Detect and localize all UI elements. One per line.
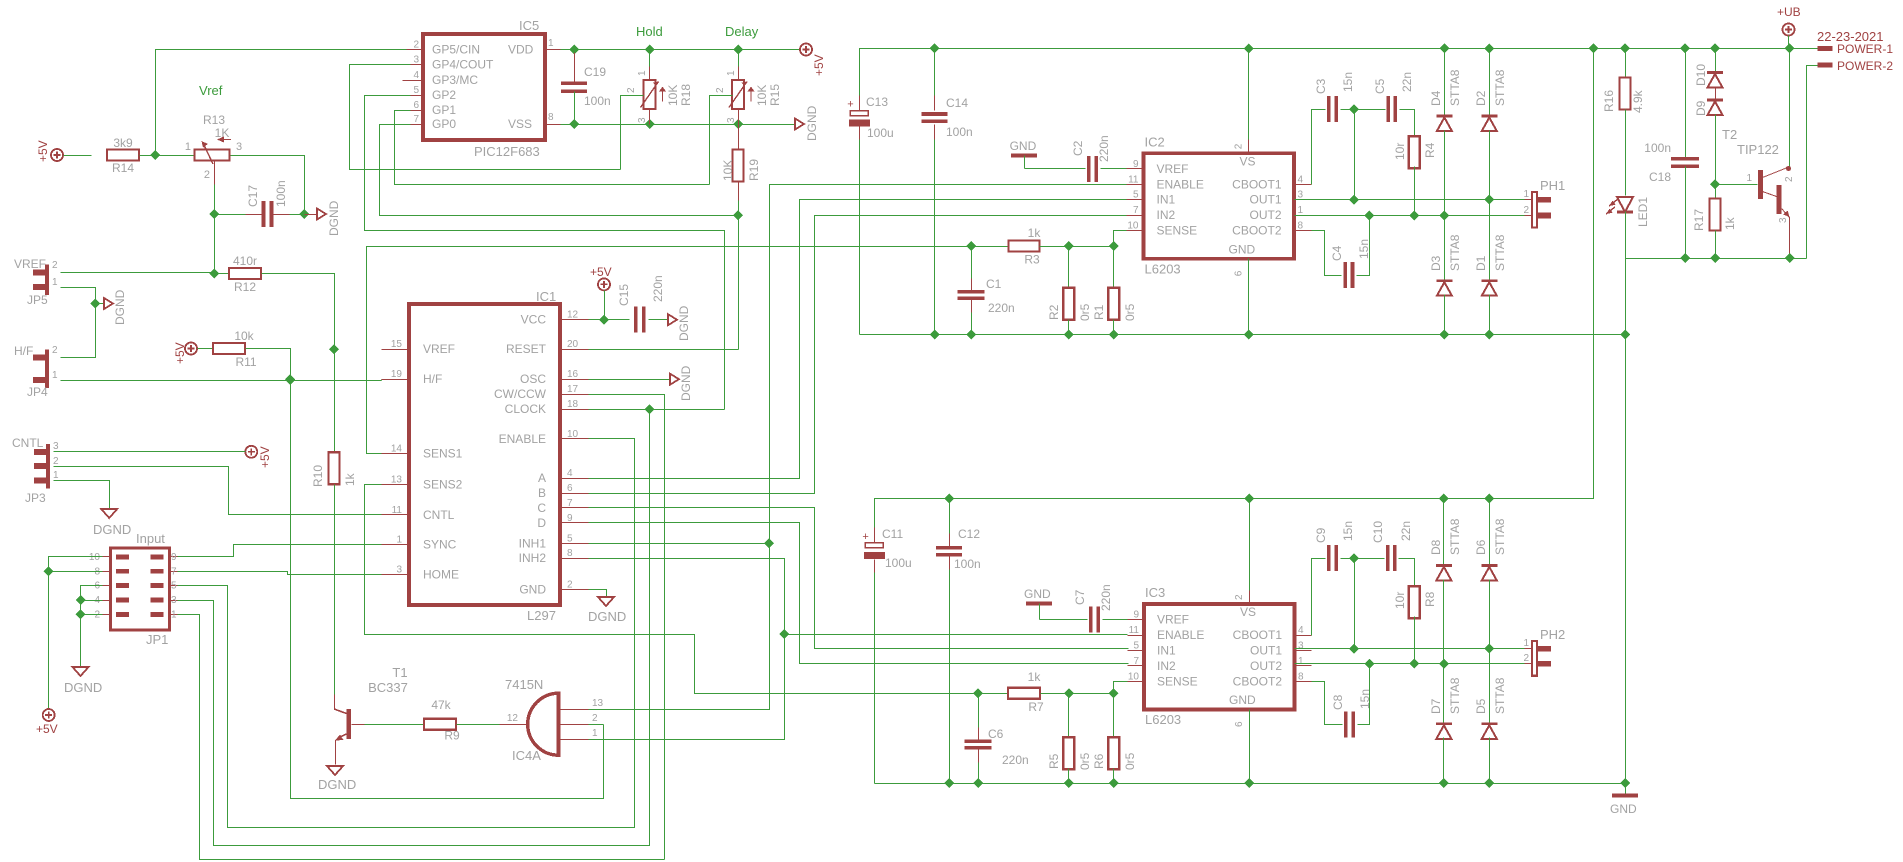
svg-text:6: 6 bbox=[567, 483, 573, 494]
svg-text:100n: 100n bbox=[1644, 141, 1671, 155]
wire +UB2 bus bbox=[875, 49, 1594, 543]
power +5V (JP3) bbox=[245, 446, 272, 468]
svg-text:220n: 220n bbox=[1099, 584, 1113, 611]
svg-text:R16: R16 bbox=[1602, 90, 1616, 112]
svg-text:1: 1 bbox=[396, 534, 402, 545]
svg-text:R14: R14 bbox=[112, 161, 134, 175]
svg-text:7: 7 bbox=[171, 566, 177, 577]
svg-text:1k: 1k bbox=[1028, 226, 1042, 240]
node junction C6 bottom bbox=[973, 778, 983, 788]
IC U-IC2 L6203 bbox=[1127, 134, 1312, 276]
svg-text:19: 19 bbox=[391, 369, 403, 380]
resistor R5 0r5 bbox=[1047, 694, 1092, 784]
svg-text:0r5: 0r5 bbox=[1078, 752, 1092, 770]
wire JP5 pin1 to DGND bbox=[61, 288, 96, 304]
wire INH1 to enable riser bbox=[589, 543, 770, 545]
resistor R10 1k bbox=[311, 350, 357, 695]
wire CBOOT2 to C4 bbox=[1312, 231, 1342, 276]
node junction R16 top bbox=[1620, 43, 1630, 53]
wire R13 wiper pin2 down bbox=[214, 162, 216, 215]
wire CBOOT1 to C3 bbox=[1312, 110, 1326, 185]
power +5V supply (left) bbox=[36, 140, 63, 162]
svg-text:JP1: JP1 bbox=[146, 632, 168, 647]
svg-text:DGND: DGND bbox=[113, 289, 127, 325]
capacitor C10 22n bbox=[1371, 521, 1413, 571]
capacitor C13 100u bbox=[847, 95, 893, 335]
svg-text:VDD: VDD bbox=[508, 43, 534, 57]
svg-text:JP3: JP3 bbox=[25, 491, 46, 505]
power +5V (IC5) bbox=[800, 44, 826, 77]
svg-text:47k: 47k bbox=[431, 698, 451, 712]
ground DGND (C17) bbox=[305, 200, 342, 236]
svg-text:R6: R6 bbox=[1092, 753, 1106, 769]
svg-text:+5V: +5V bbox=[36, 722, 58, 736]
wire C5 to R4 bbox=[1400, 110, 1415, 138]
svg-text:ENABLE: ENABLE bbox=[1157, 177, 1204, 191]
node junction D5 bottom bbox=[1484, 778, 1494, 788]
svg-text:13: 13 bbox=[391, 475, 403, 486]
node junction JP1 pin8 bbox=[44, 566, 54, 576]
svg-text:C5: C5 bbox=[1373, 78, 1387, 94]
svg-text:DGND: DGND bbox=[677, 305, 691, 341]
svg-text:GP0: GP0 bbox=[432, 117, 456, 131]
node junction C18 top bbox=[1680, 43, 1690, 53]
svg-text:C2: C2 bbox=[1071, 140, 1085, 156]
wire A to IC2 IN1 bbox=[589, 200, 1127, 479]
node junction JP5/DGND/JP4 bbox=[90, 299, 100, 309]
wire B to IC2 IN2 bbox=[589, 216, 1127, 494]
wire D to IC3 IN2 bbox=[589, 523, 1129, 664]
node junction T2 collector top bbox=[1785, 43, 1795, 53]
svg-text:8: 8 bbox=[1298, 221, 1304, 232]
svg-text:9: 9 bbox=[171, 552, 177, 563]
svg-text:7415N: 7415N bbox=[505, 677, 543, 692]
svg-text:8: 8 bbox=[567, 548, 573, 559]
svg-text:SENS2: SENS2 bbox=[423, 478, 463, 492]
node junction C12 bottom bbox=[944, 778, 954, 788]
svg-text:D2: D2 bbox=[1474, 90, 1488, 106]
node junction D6 top bbox=[1484, 494, 1494, 504]
svg-text:10r: 10r bbox=[1393, 143, 1407, 160]
wire C4 to OUT2 bbox=[1357, 216, 1370, 276]
svg-text:C: C bbox=[537, 501, 546, 515]
ground DGND (T1) bbox=[318, 766, 356, 792]
node junction D4/OUT2 bbox=[1439, 211, 1449, 221]
svg-text:R15: R15 bbox=[768, 84, 782, 106]
svg-text:RESET: RESET bbox=[506, 342, 547, 356]
svg-text:C10: C10 bbox=[1371, 521, 1385, 543]
svg-text:1K: 1K bbox=[215, 126, 230, 140]
svg-text:2: 2 bbox=[1784, 176, 1795, 182]
wire GP0 to R19 node bbox=[380, 125, 739, 216]
wire IC1 GND pin bbox=[589, 590, 607, 598]
transistor T1 BC337 bbox=[334, 665, 408, 765]
label GND (C7) bbox=[1024, 587, 1051, 601]
wire GND bus 2 bbox=[875, 783, 1626, 785]
svg-text:SENSE: SENSE bbox=[1157, 674, 1198, 688]
wire C8 to OUT2 bbox=[1358, 664, 1370, 725]
svg-text:CBOOT1: CBOOT1 bbox=[1233, 628, 1283, 642]
svg-text:15n: 15n bbox=[1341, 521, 1355, 541]
svg-text:STTA8: STTA8 bbox=[1448, 69, 1462, 106]
svg-text:Vref: Vref bbox=[199, 83, 223, 98]
wire JP1 pin10/8 to +5V bbox=[49, 557, 103, 710]
svg-text:2: 2 bbox=[626, 87, 637, 93]
capacitor C18 100n bbox=[1644, 49, 1699, 259]
diode D7 STTA8 bbox=[1429, 664, 1462, 784]
capacitor C4 15n bbox=[1330, 239, 1371, 288]
label Delay net bbox=[725, 24, 759, 39]
node junction rail/T2 bbox=[1785, 253, 1795, 263]
wire +UB top bus bbox=[860, 49, 1818, 111]
transistor T2 TIP122 bbox=[1722, 127, 1795, 259]
svg-text:CNTL: CNTL bbox=[423, 508, 455, 522]
capacitor C14 100n bbox=[922, 49, 973, 335]
svg-text:9: 9 bbox=[1133, 159, 1139, 170]
resistor R14 3k9 bbox=[107, 136, 139, 175]
resistor R6 0r5 bbox=[1092, 694, 1137, 784]
node junction R2 bottom bbox=[1064, 330, 1074, 340]
capacitor C5 22n bbox=[1373, 72, 1414, 122]
capacitor C3 15n bbox=[1314, 72, 1355, 122]
svg-text:VS: VS bbox=[1240, 154, 1256, 168]
svg-text:IN1: IN1 bbox=[1157, 193, 1176, 207]
resistor R4 10r bbox=[1393, 136, 1437, 215]
wire IC3 enable row bbox=[785, 634, 1128, 636]
node junction D7 bottom bbox=[1439, 778, 1449, 788]
potentiometer R13 1K bbox=[185, 113, 242, 181]
wire VDD rail bbox=[561, 49, 807, 51]
svg-text:D5: D5 bbox=[1474, 698, 1488, 714]
wire LED rail to GND riser bbox=[1625, 259, 1627, 784]
svg-text:SENS1: SENS1 bbox=[423, 447, 463, 461]
wire SENS1 to R3 line bbox=[367, 247, 1010, 454]
capacitor C17 100n bbox=[215, 180, 305, 227]
svg-text:CBOOT1: CBOOT1 bbox=[1232, 177, 1282, 191]
wire +5V to R14 bbox=[64, 155, 92, 157]
svg-text:H/F: H/F bbox=[423, 372, 442, 386]
svg-text:IC3: IC3 bbox=[1145, 585, 1165, 600]
svg-text:1: 1 bbox=[637, 70, 648, 76]
svg-text:POWER-2: POWER-2 bbox=[1837, 59, 1893, 73]
svg-text:3: 3 bbox=[396, 564, 402, 575]
svg-text:C7: C7 bbox=[1073, 589, 1087, 605]
wire C10 to R8 bbox=[1399, 559, 1415, 588]
svg-text:6: 6 bbox=[1234, 270, 1245, 276]
svg-text:2: 2 bbox=[53, 456, 59, 467]
svg-text:+5V: +5V bbox=[258, 446, 272, 468]
ground GND bar (C2) bbox=[1011, 154, 1037, 158]
svg-text:10K: 10K bbox=[755, 85, 769, 106]
wire GP2 to CLOCK riser bbox=[365, 96, 725, 410]
ground DGND (JP3) bbox=[93, 509, 131, 537]
ground DGND (JP5) bbox=[96, 289, 128, 325]
wire T1 collector bbox=[334, 695, 336, 710]
svg-text:1: 1 bbox=[185, 141, 191, 153]
svg-text:8: 8 bbox=[1298, 671, 1304, 682]
node junction R2 top bbox=[1064, 241, 1074, 251]
svg-text:17: 17 bbox=[567, 384, 579, 395]
wire R13 pin3 to C17 node bbox=[231, 156, 305, 215]
svg-text:C1: C1 bbox=[986, 277, 1002, 291]
node junction D2/OUT1 bbox=[1484, 195, 1494, 205]
svg-text:C11: C11 bbox=[882, 527, 903, 541]
svg-text:C8: C8 bbox=[1331, 694, 1345, 710]
svg-text:INH1: INH1 bbox=[519, 536, 547, 550]
svg-text:+5V: +5V bbox=[173, 342, 187, 364]
svg-text:PIC12F683: PIC12F683 bbox=[474, 144, 540, 159]
svg-text:STTA8: STTA8 bbox=[1448, 234, 1462, 271]
svg-text:10K: 10K bbox=[721, 160, 735, 181]
svg-text:12: 12 bbox=[567, 310, 579, 321]
svg-text:1k: 1k bbox=[343, 472, 357, 486]
svg-text:R1: R1 bbox=[1092, 304, 1106, 320]
wire R3 to sense junctions bbox=[1040, 246, 1114, 248]
svg-text:+5V: +5V bbox=[812, 54, 826, 76]
label POWER-1 bbox=[1818, 42, 1894, 56]
svg-text:VCC: VCC bbox=[521, 313, 547, 327]
svg-text:4: 4 bbox=[1298, 174, 1304, 185]
svg-text:GP5/CIN: GP5/CIN bbox=[432, 43, 480, 57]
svg-text:STTA8: STTA8 bbox=[1493, 234, 1507, 271]
svg-text:2: 2 bbox=[52, 345, 58, 356]
node junction R6 top bbox=[1109, 688, 1119, 698]
svg-text:R13: R13 bbox=[203, 113, 225, 127]
svg-text:1: 1 bbox=[592, 728, 598, 739]
wire JP3 pin2 to CNTL bbox=[54, 467, 382, 515]
svg-text:11: 11 bbox=[392, 505, 403, 516]
wire IC2 GND pin bbox=[1248, 259, 1250, 335]
diode D9 bbox=[1694, 100, 1723, 185]
svg-text:R10: R10 bbox=[311, 465, 325, 487]
svg-text:STTA8: STTA8 bbox=[1448, 518, 1462, 555]
node junction D10 top bbox=[1710, 43, 1720, 53]
svg-text:12: 12 bbox=[507, 713, 519, 724]
svg-text:1: 1 bbox=[53, 470, 59, 481]
capacitor C11 100u bbox=[862, 527, 911, 784]
wire JP3 pin3 to +5V bbox=[54, 451, 246, 453]
svg-text:Input: Input bbox=[136, 531, 165, 546]
diode D1 STTA8 bbox=[1474, 200, 1507, 335]
svg-text:GND: GND bbox=[519, 582, 546, 596]
svg-text:R5: R5 bbox=[1047, 753, 1061, 769]
svg-text:C12: C12 bbox=[958, 527, 980, 541]
wire JP3 pin1 to DGND bbox=[54, 481, 110, 510]
LED LED1 bbox=[1606, 197, 1650, 227]
node junction VSS/C19 bbox=[569, 119, 579, 129]
resistor R17 1k bbox=[1692, 185, 1737, 259]
svg-text:GND: GND bbox=[1610, 802, 1637, 816]
svg-text:R12: R12 bbox=[234, 280, 256, 294]
svg-text:C6: C6 bbox=[988, 727, 1004, 741]
svg-text:3k9: 3k9 bbox=[113, 136, 133, 150]
svg-text:L6203: L6203 bbox=[1145, 261, 1181, 276]
svg-text:3: 3 bbox=[1778, 217, 1789, 223]
svg-text:C9: C9 bbox=[1314, 527, 1328, 543]
svg-text:H/F: H/F bbox=[14, 344, 33, 358]
svg-text:STTA8: STTA8 bbox=[1493, 677, 1507, 714]
node junction C12 top bbox=[944, 494, 954, 504]
node junction D3 bottom bbox=[1439, 330, 1449, 340]
svg-text:LED1: LED1 bbox=[1636, 197, 1650, 227]
capacitor C7 220n bbox=[1040, 584, 1128, 632]
svg-text:1: 1 bbox=[52, 370, 58, 381]
svg-text:R18: R18 bbox=[679, 84, 693, 106]
resistor R19 10K bbox=[721, 125, 761, 216]
svg-text:Hold: Hold bbox=[636, 24, 663, 39]
svg-text:R4: R4 bbox=[1423, 142, 1437, 158]
node junction R4/OUT2 bbox=[1409, 211, 1419, 221]
svg-text:220n: 220n bbox=[988, 301, 1015, 315]
wire C3 to C5 bbox=[1341, 109, 1386, 111]
connector JP3 bbox=[25, 441, 59, 505]
wire base node to T2 bbox=[1716, 184, 1758, 186]
svg-text:B: B bbox=[538, 486, 546, 500]
node junction R14/R13 bbox=[150, 150, 160, 160]
svg-text:PH1: PH1 bbox=[1540, 178, 1565, 193]
svg-text:4: 4 bbox=[1298, 625, 1304, 636]
wire T2 collector riser bbox=[1789, 49, 1791, 169]
svg-text:R3: R3 bbox=[1024, 253, 1040, 267]
svg-text:VREF: VREF bbox=[423, 342, 455, 356]
svg-text:C18: C18 bbox=[1649, 170, 1671, 184]
svg-text:C13: C13 bbox=[866, 95, 888, 109]
svg-text:3: 3 bbox=[53, 441, 59, 452]
svg-text:VREF: VREF bbox=[1157, 613, 1189, 627]
wire GND bus (IC2) bbox=[860, 334, 1626, 336]
node junction D1 bottom bbox=[1484, 330, 1494, 340]
label Hold net bbox=[636, 24, 663, 39]
svg-text:D10: D10 bbox=[1694, 64, 1708, 86]
node junction R8/OUT2 bbox=[1409, 659, 1419, 669]
svg-text:11: 11 bbox=[1129, 625, 1140, 636]
capacitor C1 220n bbox=[958, 247, 1015, 335]
svg-text:SENSE: SENSE bbox=[1157, 224, 1198, 238]
node junction CLOCK bbox=[645, 404, 655, 414]
wire C17 node down to R12 node bbox=[214, 215, 216, 274]
svg-text:2: 2 bbox=[52, 260, 58, 271]
svg-text:VREF: VREF bbox=[1157, 162, 1189, 176]
diode D4 STTA8 bbox=[1429, 49, 1462, 216]
svg-text:1: 1 bbox=[1298, 205, 1304, 216]
svg-text:2: 2 bbox=[1523, 653, 1529, 664]
wire DGND node to JP4 pin2 bbox=[61, 304, 96, 358]
svg-text:C19: C19 bbox=[584, 65, 606, 79]
logic gate IC4A 7415N bbox=[505, 677, 604, 763]
svg-text:+UB: +UB bbox=[1777, 5, 1801, 19]
svg-text:D: D bbox=[537, 516, 546, 530]
svg-text:14: 14 bbox=[391, 444, 403, 455]
node junction VSS/R15/R19 bbox=[733, 119, 743, 129]
node junction rail/R17 bbox=[1710, 253, 1720, 263]
node junction C14 bottom bbox=[930, 330, 940, 340]
node junction INH1/enable bbox=[764, 538, 774, 548]
svg-text:100u: 100u bbox=[885, 556, 912, 570]
svg-text:+5V: +5V bbox=[36, 140, 50, 162]
svg-text:15n: 15n bbox=[1357, 239, 1371, 259]
node junction JP1 pin2 bbox=[76, 609, 86, 619]
svg-text:D8: D8 bbox=[1429, 539, 1443, 555]
svg-text:2: 2 bbox=[715, 87, 726, 93]
node junction INH2/IC3 enable bbox=[779, 629, 789, 639]
IC U-IC3 L6203 bbox=[1128, 585, 1312, 727]
node junction C1 top bbox=[966, 241, 976, 251]
svg-text:+: + bbox=[862, 531, 868, 543]
node junction R19/GP0/RESET bbox=[733, 210, 743, 220]
svg-text:100n: 100n bbox=[954, 557, 981, 571]
svg-text:D1: D1 bbox=[1474, 255, 1488, 271]
svg-text:TIP122: TIP122 bbox=[1737, 142, 1779, 157]
svg-text:GP3/MC: GP3/MC bbox=[432, 73, 478, 87]
svg-text:220n: 220n bbox=[651, 275, 665, 302]
wire H/F wrap to gate pin2 bbox=[291, 381, 604, 799]
node junction R5 bottom bbox=[1064, 778, 1074, 788]
node junction VDD/C19 bbox=[569, 45, 579, 55]
node junction C3/C5/OUT1 bbox=[1349, 104, 1359, 199]
capacitor C9 15n bbox=[1314, 521, 1355, 571]
svg-text:D4: D4 bbox=[1429, 90, 1443, 106]
svg-text:C17: C17 bbox=[246, 185, 260, 207]
wire sense to SENSE pin (IC3) bbox=[1114, 682, 1128, 694]
svg-text:IC2: IC2 bbox=[1145, 134, 1165, 149]
node junction R1 bottom bbox=[1109, 330, 1119, 340]
wire JP1 pin6/4/2 to DGND bbox=[81, 586, 103, 668]
svg-text:L6203: L6203 bbox=[1145, 712, 1181, 727]
svg-text:3: 3 bbox=[726, 117, 737, 123]
svg-text:VREF: VREF bbox=[14, 257, 46, 271]
node junction IC3 GND bbox=[1244, 778, 1254, 788]
node junction R13 wiper / C17 bbox=[209, 209, 219, 219]
svg-text:DGND: DGND bbox=[318, 777, 356, 792]
svg-text:ENABLE: ENABLE bbox=[1157, 628, 1204, 642]
svg-text:410r: 410r bbox=[233, 254, 257, 268]
svg-text:1: 1 bbox=[548, 38, 554, 49]
svg-text:GND: GND bbox=[1024, 587, 1051, 601]
svg-text:OSC: OSC bbox=[520, 372, 546, 386]
svg-text:22n: 22n bbox=[1399, 521, 1413, 541]
node junction R7/C6 bbox=[973, 688, 983, 698]
wire sense to SENSE pin bbox=[1114, 231, 1127, 247]
svg-text:3: 3 bbox=[236, 141, 242, 153]
node junction R12/JP5 bbox=[209, 269, 219, 279]
svg-text:100n: 100n bbox=[584, 94, 611, 108]
svg-text:100n: 100n bbox=[274, 180, 288, 207]
svg-text:IN2: IN2 bbox=[1157, 208, 1176, 222]
node junction C17/DGND bbox=[299, 209, 309, 219]
svg-text:18: 18 bbox=[567, 399, 579, 410]
svg-text:0r5: 0r5 bbox=[1123, 752, 1137, 770]
node junction D6/OUT1 bbox=[1484, 644, 1494, 654]
ground GND bar (C7) bbox=[1026, 602, 1052, 606]
svg-text:3: 3 bbox=[637, 117, 648, 123]
node junction VDD/R18 bbox=[645, 45, 655, 55]
svg-text:100u: 100u bbox=[867, 126, 894, 140]
wire gate pin2 riser bbox=[589, 724, 604, 726]
diode D8 STTA8 bbox=[1429, 499, 1462, 664]
node junction D8/OUT2 bbox=[1439, 659, 1449, 669]
connector JP4 bbox=[27, 345, 58, 399]
svg-text:1: 1 bbox=[1746, 173, 1752, 184]
svg-text:INH2: INH2 bbox=[519, 551, 547, 565]
svg-text:1: 1 bbox=[1523, 638, 1529, 649]
svg-text:D9: D9 bbox=[1694, 100, 1708, 116]
svg-text:1: 1 bbox=[1298, 656, 1304, 667]
svg-text:+5V: +5V bbox=[590, 265, 612, 279]
svg-text:6: 6 bbox=[94, 581, 100, 592]
wire JP1 pin1 to CW/CCW wrap bbox=[178, 615, 665, 860]
capacitor C19 100n bbox=[561, 53, 611, 125]
capacitor C15 220n bbox=[617, 275, 669, 332]
